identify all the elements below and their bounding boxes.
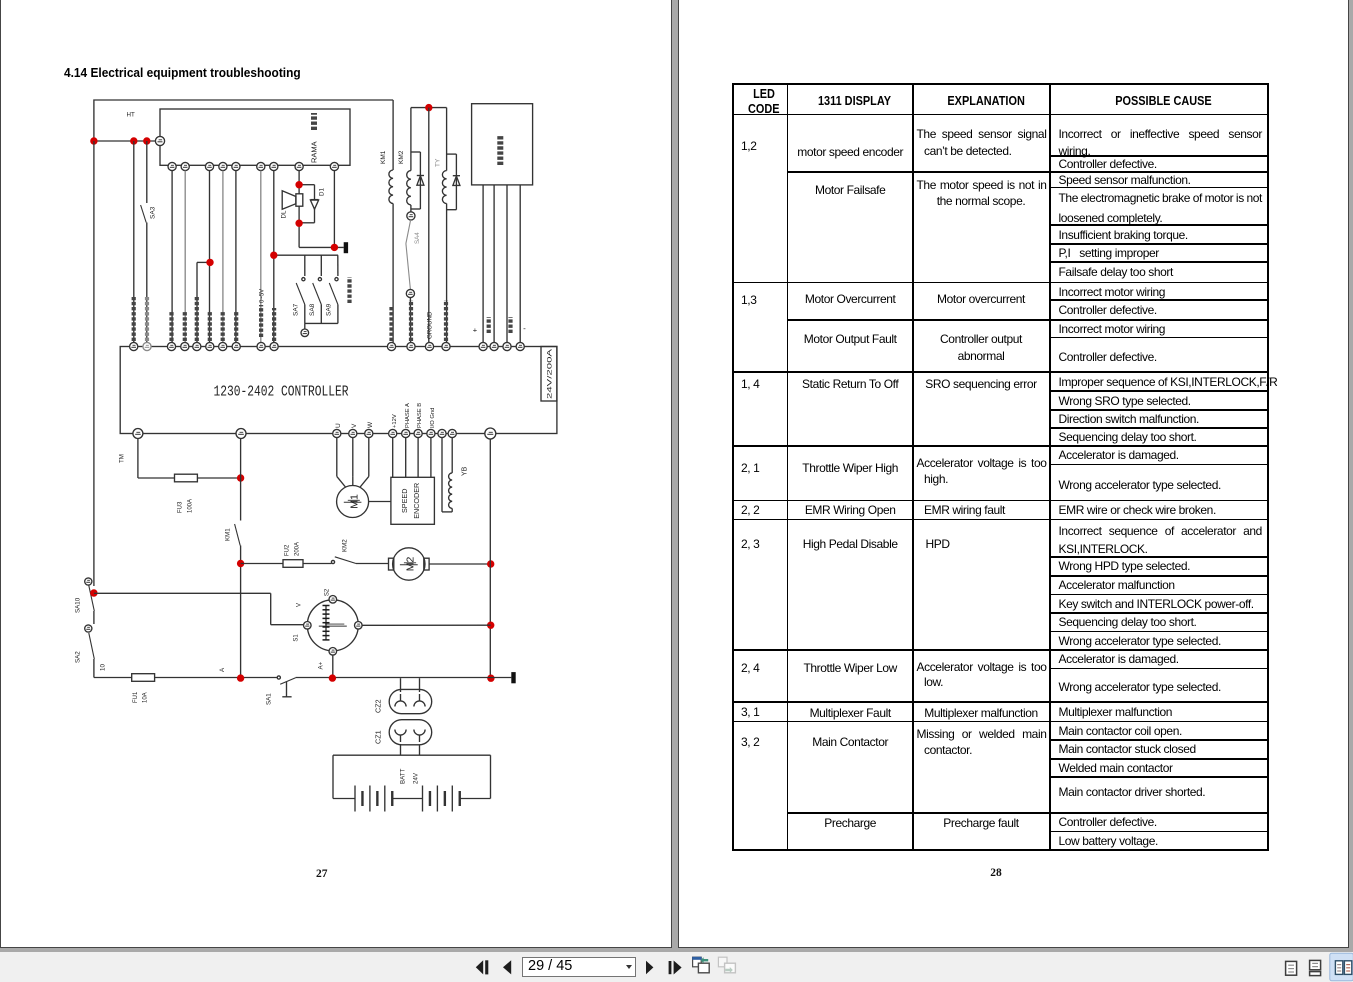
svg-text:10A: 10A xyxy=(143,692,149,703)
svg-text:24V: 24V xyxy=(413,772,420,784)
svg-text:D1: D1 xyxy=(319,188,326,196)
svg-text:GROUND: GROUND xyxy=(427,311,434,339)
svg-text:200A: 200A xyxy=(295,542,301,556)
svg-text:S1: S1 xyxy=(294,634,300,642)
svg-text:-: - xyxy=(523,324,526,333)
svg-text:SA4: SA4 xyxy=(414,232,421,244)
svg-text:M2: M2 xyxy=(405,557,417,572)
svg-text:SA9: SA9 xyxy=(326,303,333,316)
svg-text:S2: S2 xyxy=(325,588,331,596)
svg-text:A+: A+ xyxy=(318,661,325,669)
svg-text:CZ2: CZ2 xyxy=(374,699,383,713)
svg-text:1230-2402 CONTROLLER: 1230-2402 CONTROLLER xyxy=(214,384,349,401)
svg-text:A: A xyxy=(219,667,226,672)
svg-text:YB: YB xyxy=(462,466,469,476)
svg-text:ENCODER: ENCODER xyxy=(412,483,421,519)
svg-text:KM2: KM2 xyxy=(342,539,349,552)
svg-text:SA3: SA3 xyxy=(150,206,157,219)
svg-text:RAMA: RAMA xyxy=(310,141,319,163)
svg-text:+: + xyxy=(473,326,478,335)
svg-text:SA2: SA2 xyxy=(75,651,82,663)
svg-text:0~5V: 0~5V xyxy=(259,289,265,303)
svg-text:SPEED: SPEED xyxy=(400,489,409,513)
svg-text:KM2: KM2 xyxy=(398,150,405,164)
svg-text:27: 27 xyxy=(316,868,328,880)
svg-text:M1: M1 xyxy=(349,494,361,509)
svg-text:DL: DL xyxy=(281,210,288,218)
svg-text:W: W xyxy=(367,421,374,428)
svg-text:SA1: SA1 xyxy=(266,693,273,705)
svg-text:KM1: KM1 xyxy=(225,528,232,541)
svg-text:TY: TY xyxy=(435,158,442,167)
svg-text:FU1: FU1 xyxy=(133,691,139,703)
svg-text:10: 10 xyxy=(100,664,107,671)
svg-text:TM: TM xyxy=(119,454,126,463)
svg-text:PHASE A: PHASE A xyxy=(405,403,411,428)
svg-text:SA7: SA7 xyxy=(293,303,300,316)
svg-text:HT: HT xyxy=(127,112,135,119)
svg-text:KM1: KM1 xyxy=(380,150,387,164)
svg-text:24V/200A: 24V/200A xyxy=(547,347,554,399)
svg-text:BATT: BATT xyxy=(400,768,407,784)
svg-text:CZ1: CZ1 xyxy=(374,730,383,744)
svg-text:SA8: SA8 xyxy=(309,303,316,316)
svg-text:FU2: FU2 xyxy=(285,544,291,556)
svg-text:100A: 100A xyxy=(188,499,194,513)
svg-text:PHASE B: PHASE B xyxy=(417,403,423,428)
svg-text:SA10: SA10 xyxy=(75,597,82,613)
svg-text:V: V xyxy=(351,423,358,428)
svg-text:I/O Gnd: I/O Gnd xyxy=(430,408,436,428)
svg-text:U: U xyxy=(335,423,342,428)
svg-text:V: V xyxy=(297,603,303,607)
svg-text:FU3: FU3 xyxy=(178,501,184,513)
svg-text:+12V: +12V xyxy=(392,414,398,428)
